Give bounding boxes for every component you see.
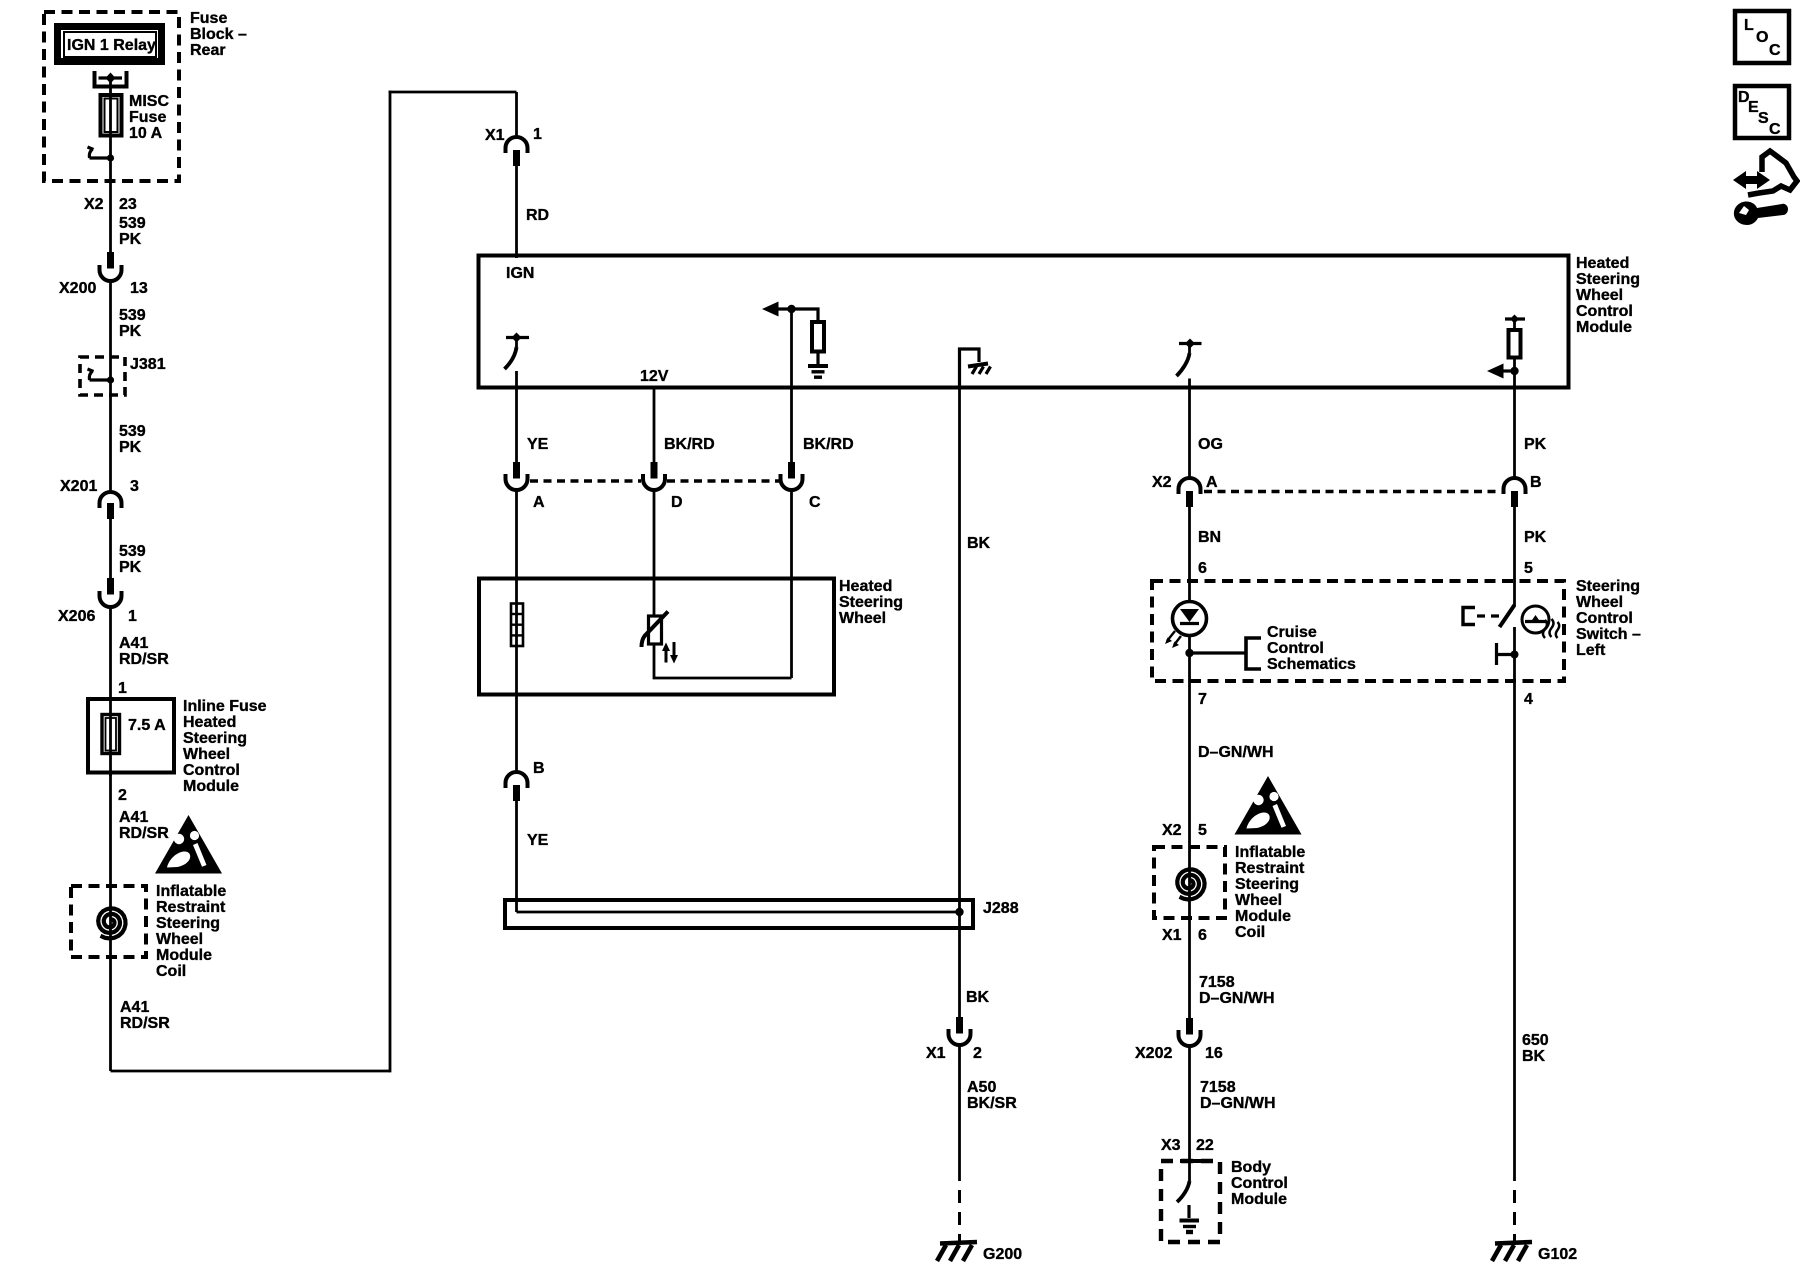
wire thermistor to loop bbox=[654, 644, 792, 678]
svg-text:X2: X2 bbox=[84, 196, 104, 213]
svg-text:A41: A41 bbox=[120, 999, 149, 1016]
svg-text:3: 3 bbox=[130, 478, 139, 495]
icon wrench bbox=[1734, 202, 1788, 225]
svg-text:Restraint: Restraint bbox=[156, 899, 226, 916]
airbag warning triangle bbox=[155, 815, 222, 874]
wire label 539 PK bbox=[119, 307, 146, 340]
svg-text:G200: G200 bbox=[983, 1246, 1022, 1263]
heater element symbol bbox=[511, 604, 523, 647]
svg-text:C: C bbox=[1769, 121, 1781, 138]
svg-text:BN: BN bbox=[1198, 529, 1221, 546]
svg-text:X1: X1 bbox=[926, 1045, 946, 1062]
svg-text:Control: Control bbox=[1576, 303, 1633, 320]
svg-text:1: 1 bbox=[128, 608, 137, 625]
svg-text:PK: PK bbox=[119, 439, 142, 456]
svg-text:539: 539 bbox=[119, 215, 146, 232]
svg-text:12V: 12V bbox=[640, 368, 669, 385]
ground G200 symbol bbox=[937, 1242, 977, 1261]
svg-text:Control: Control bbox=[1267, 640, 1324, 657]
wire label 539 PK bbox=[119, 423, 146, 456]
module internal resistor PK bbox=[1487, 315, 1525, 388]
svg-text:2: 2 bbox=[973, 1045, 982, 1062]
wire BN branch below box bbox=[1188, 681, 1191, 1018]
wire label 7158 D-GN/WH bbox=[1200, 1079, 1276, 1112]
svg-text:Body: Body bbox=[1231, 1159, 1271, 1176]
svg-text:BK: BK bbox=[1522, 1048, 1546, 1065]
label X3 22 bbox=[1161, 1137, 1214, 1154]
svg-text:Control: Control bbox=[183, 762, 240, 779]
svg-text:4: 4 bbox=[1524, 691, 1533, 708]
svg-text:22: 22 bbox=[1196, 1137, 1214, 1154]
wire junction to bracket bbox=[1190, 651, 1247, 654]
svg-text:S: S bbox=[1758, 110, 1769, 127]
wire inline fuse to coil bbox=[109, 772, 112, 1071]
svg-text:5: 5 bbox=[1198, 822, 1207, 839]
svg-text:O: O bbox=[1756, 29, 1768, 46]
connector pin D bbox=[643, 462, 665, 490]
svg-text:Fuse: Fuse bbox=[190, 10, 227, 27]
wire BK/RD 12V below module bbox=[653, 387, 656, 462]
svg-text:A: A bbox=[1206, 474, 1218, 491]
svg-text:Inline Fuse: Inline Fuse bbox=[183, 698, 267, 715]
wire PK below module bbox=[1513, 387, 1516, 480]
wire BN to switch box bbox=[1188, 507, 1191, 602]
svg-text:RD: RD bbox=[526, 207, 549, 224]
fuse MISC Fuse 10A bbox=[101, 95, 122, 148]
svg-text:Switch –: Switch – bbox=[1576, 626, 1641, 643]
label Fuse Block - Rear bbox=[190, 10, 247, 59]
wire heater element to box bottom bbox=[515, 646, 518, 695]
splice J288 internal wire bbox=[517, 911, 960, 914]
svg-text:X202: X202 bbox=[1135, 1045, 1172, 1062]
svg-text:X3: X3 bbox=[1161, 1137, 1181, 1154]
splice J381 dashed box bbox=[80, 357, 125, 395]
wire label A41 RD/SR bbox=[120, 999, 170, 1032]
svg-text:B: B bbox=[533, 760, 545, 777]
svg-text:Inflatable: Inflatable bbox=[1235, 844, 1305, 861]
wire X1-2 to G200 solid bbox=[958, 1045, 961, 1181]
wire label A41 RD/SR bbox=[119, 635, 169, 668]
svg-text:Heated: Heated bbox=[1576, 255, 1629, 272]
wire label A41 RD/SR bbox=[119, 809, 169, 842]
switch linkage bracket and dashes bbox=[1463, 608, 1504, 625]
svg-text:539: 539 bbox=[119, 423, 146, 440]
wire X206 to inline fuse bbox=[109, 607, 112, 699]
connector pin A bbox=[506, 462, 528, 490]
wire loop top horizontal bbox=[389, 91, 517, 94]
svg-text:D: D bbox=[671, 494, 683, 511]
wire A to heater element bbox=[515, 490, 518, 604]
svg-text:PK: PK bbox=[119, 323, 142, 340]
svg-text:Heated: Heated bbox=[839, 578, 892, 595]
svg-text:Coil: Coil bbox=[1235, 924, 1265, 941]
svg-text:539: 539 bbox=[119, 543, 146, 560]
svg-text:L: L bbox=[1744, 17, 1754, 34]
svg-text:Schematics: Schematics bbox=[1267, 656, 1356, 673]
svg-text:Wheel: Wheel bbox=[156, 931, 203, 948]
BCM internal signal ground symbol bbox=[1180, 1221, 1200, 1233]
module internal ground wire BK bbox=[960, 349, 980, 387]
svg-text:BK: BK bbox=[967, 535, 991, 552]
label X206 1 bbox=[58, 608, 137, 625]
svg-text:650: 650 bbox=[1522, 1032, 1549, 1049]
svg-text:Wheel: Wheel bbox=[1235, 892, 1282, 909]
wire YE below module bbox=[515, 387, 518, 462]
svg-text:Module: Module bbox=[1235, 908, 1291, 925]
thermistor arrows up-down bbox=[662, 642, 678, 664]
svg-text:X1: X1 bbox=[485, 127, 505, 144]
coil spiral symbol right bbox=[1177, 869, 1204, 899]
svg-text:D–GN/WH: D–GN/WH bbox=[1198, 744, 1274, 761]
svg-text:Rear: Rear bbox=[190, 42, 226, 59]
svg-text:23: 23 bbox=[119, 196, 137, 213]
svg-text:A41: A41 bbox=[119, 635, 148, 652]
svg-text:1: 1 bbox=[118, 680, 127, 697]
label X201 3 bbox=[60, 478, 139, 495]
label Heated Steering Wheel bbox=[839, 578, 903, 627]
junction dot cruise branch bbox=[1185, 649, 1193, 657]
svg-text:7.5 A: 7.5 A bbox=[128, 717, 166, 734]
svg-text:Coil: Coil bbox=[156, 963, 186, 980]
svg-text:Block –: Block – bbox=[190, 26, 247, 43]
coil spiral symbol bbox=[98, 908, 125, 938]
connector X206 pin 1 bbox=[100, 578, 122, 607]
inflatable restraint coil dashed box bbox=[71, 886, 146, 957]
splice J288 box bbox=[505, 900, 973, 928]
svg-text:BK: BK bbox=[966, 989, 990, 1006]
wire A exits box to B connector bbox=[515, 695, 518, 772]
wire to G200 dashed bbox=[958, 1190, 961, 1243]
svg-text:J288: J288 bbox=[983, 900, 1019, 917]
connector pin B of heated wheel bbox=[506, 772, 528, 801]
module internal resistor to signal ground bbox=[792, 309, 825, 364]
svg-text:X200: X200 bbox=[59, 280, 96, 297]
heated steering wheel box bbox=[479, 579, 834, 695]
svg-text:PK: PK bbox=[1524, 436, 1547, 453]
inline fuse box bbox=[88, 699, 174, 776]
svg-text:BK/SR: BK/SR bbox=[967, 1095, 1017, 1112]
wire PK to switch box bbox=[1513, 507, 1516, 606]
svg-text:X201: X201 bbox=[60, 478, 97, 495]
svg-text:Restraint: Restraint bbox=[1235, 860, 1305, 877]
svg-text:RD/SR: RD/SR bbox=[119, 651, 169, 668]
wire C into heated steering wheel box bbox=[790, 490, 793, 678]
svg-text:16: 16 bbox=[1205, 1045, 1223, 1062]
label X202 16 bbox=[1135, 1045, 1223, 1062]
module internal switch OG bbox=[1177, 339, 1202, 388]
label X2 5 bbox=[1162, 822, 1207, 839]
label Inflatable Restraint Steering Wheel Module Coil bbox=[156, 883, 226, 980]
svg-text:Steering: Steering bbox=[1576, 578, 1640, 595]
LED indicator symbol bbox=[1165, 602, 1207, 649]
wire switch to box bottom bbox=[1513, 627, 1516, 690]
label X2 23 bbox=[84, 196, 137, 213]
svg-text:OG: OG bbox=[1198, 436, 1223, 453]
svg-text:RD/SR: RD/SR bbox=[119, 825, 169, 842]
heated switch lever bbox=[1500, 605, 1515, 627]
label X1 1 bbox=[485, 126, 542, 144]
thermistor symbol bbox=[642, 612, 669, 648]
heat wave squiggles bbox=[1543, 619, 1559, 638]
svg-text:B: B bbox=[1530, 474, 1542, 491]
svg-text:C: C bbox=[809, 494, 821, 511]
wire loop bottom horizontal bbox=[111, 1070, 391, 1073]
connector pin B right bbox=[1504, 478, 1526, 507]
svg-text:A50: A50 bbox=[967, 1079, 996, 1096]
wire to X1 pin 1 bbox=[515, 92, 518, 137]
body control module dashed box bbox=[1161, 1161, 1220, 1242]
svg-text:X1: X1 bbox=[1162, 927, 1182, 944]
relay output terminal cup bbox=[95, 71, 127, 87]
BCM internal switch lever bbox=[1177, 1181, 1190, 1202]
svg-text:Wheel: Wheel bbox=[839, 610, 886, 627]
svg-text:IGN: IGN bbox=[506, 265, 534, 282]
svg-text:Wheel: Wheel bbox=[183, 746, 230, 763]
svg-text:YE: YE bbox=[527, 436, 549, 453]
svg-text:D–GN/WH: D–GN/WH bbox=[1199, 990, 1275, 1007]
relay IGN 1 Relay bbox=[58, 27, 162, 62]
svg-text:Module: Module bbox=[1231, 1191, 1287, 1208]
svg-text:D–GN/WH: D–GN/WH bbox=[1200, 1095, 1276, 1112]
wire X201 to X206 bbox=[109, 519, 112, 579]
svg-text:Inflatable: Inflatable bbox=[156, 883, 226, 900]
svg-text:6: 6 bbox=[1198, 560, 1207, 577]
wire loop right vertical bbox=[389, 91, 392, 1073]
heated indicator circle bbox=[1522, 606, 1549, 633]
svg-text:Control: Control bbox=[1576, 610, 1633, 627]
wire YE to J288 bbox=[515, 801, 518, 912]
module box Heated Steering Wheel Control Module bbox=[479, 256, 1569, 388]
dashed harness line A-D bbox=[530, 479, 641, 482]
svg-text:Wheel: Wheel bbox=[1576, 594, 1623, 611]
cruise control schematics bracket bbox=[1246, 638, 1261, 669]
svg-text:7158: 7158 bbox=[1200, 1079, 1236, 1096]
svg-text:Module: Module bbox=[156, 947, 212, 964]
svg-text:BK/RD: BK/RD bbox=[803, 436, 854, 453]
wire D to thermistor bbox=[653, 490, 656, 616]
dashed harness line A-B bbox=[1204, 490, 1500, 493]
wire label A50 BK/SR bbox=[967, 1079, 1017, 1112]
wire LED to junction bbox=[1188, 636, 1191, 682]
icon DESC box bbox=[1735, 86, 1789, 138]
svg-text:PK: PK bbox=[119, 559, 142, 576]
svg-text:Left: Left bbox=[1576, 642, 1606, 659]
svg-text:7: 7 bbox=[1198, 691, 1207, 708]
steering wheel control switch dashed box bbox=[1152, 581, 1564, 681]
label X1 2 bbox=[926, 1045, 982, 1062]
wire to G102 dashed bbox=[1513, 1190, 1516, 1243]
svg-text:Control: Control bbox=[1231, 1175, 1288, 1192]
svg-text:539: 539 bbox=[119, 307, 146, 324]
svg-text:PK: PK bbox=[119, 231, 142, 248]
module internal arrow left at BK/RD bbox=[762, 302, 796, 317]
svg-text:PK: PK bbox=[1524, 529, 1547, 546]
splice J288 junction bbox=[955, 908, 963, 916]
switch lower contact bbox=[1497, 643, 1519, 665]
svg-text:Steering: Steering bbox=[1235, 876, 1299, 893]
svg-text:G102: G102 bbox=[1538, 1246, 1577, 1263]
BCM pin 22 terminal bar bbox=[1180, 1159, 1201, 1163]
module internal chassis ground symbol bbox=[968, 364, 991, 375]
svg-text:10 A: 10 A bbox=[129, 125, 163, 142]
svg-text:Steering: Steering bbox=[183, 730, 247, 747]
BCM internal ground stub bbox=[1187, 1205, 1190, 1218]
svg-text:C: C bbox=[1769, 42, 1781, 59]
svg-text:1: 1 bbox=[533, 126, 542, 143]
label X2 A bbox=[1152, 474, 1218, 491]
wire label 650 BK bbox=[1522, 1032, 1549, 1065]
svg-text:7158: 7158 bbox=[1199, 974, 1235, 991]
wire X200 to X201 bbox=[109, 281, 112, 492]
label X1 6 bbox=[1162, 927, 1207, 944]
svg-text:RD/SR: RD/SR bbox=[120, 1015, 170, 1032]
svg-text:IGN 1 Relay: IGN 1 Relay bbox=[67, 37, 156, 54]
wire BK below module to J288 bbox=[958, 387, 961, 1017]
label Inline Fuse Heated Steering Wheel Control Module bbox=[183, 698, 267, 795]
fuse output contact hook bbox=[88, 147, 115, 162]
svg-text:YE: YE bbox=[527, 832, 549, 849]
svg-text:X2: X2 bbox=[1152, 474, 1172, 491]
wire RD into module bbox=[515, 166, 518, 258]
svg-text:Module: Module bbox=[1576, 319, 1632, 336]
svg-text:Heated: Heated bbox=[183, 714, 236, 731]
icon navigation arrows bbox=[1733, 151, 1797, 195]
label Inflatable Restraint Steering Wheel Module Coil right bbox=[1235, 844, 1305, 941]
wire PK branch to G102 solid bbox=[1513, 690, 1516, 1181]
wire OG below module bbox=[1188, 387, 1191, 480]
wire label 539 PK bbox=[119, 215, 146, 248]
label Cruise Control Schematics bbox=[1267, 624, 1356, 673]
connector X2 pin A bbox=[1179, 478, 1201, 507]
svg-text:X2: X2 bbox=[1162, 822, 1182, 839]
label X200 13 bbox=[59, 280, 148, 297]
module internal signal ground symbol bbox=[808, 366, 828, 377]
airbag warning triangle right bbox=[1235, 776, 1302, 835]
dashed harness line D-C bbox=[667, 479, 779, 482]
svg-text:MISC: MISC bbox=[129, 93, 169, 110]
connector X1 pin 2 bbox=[949, 1017, 971, 1045]
svg-text:Cruise: Cruise bbox=[1267, 624, 1317, 641]
svg-text:Module: Module bbox=[183, 778, 239, 795]
label MISC Fuse 10 A bbox=[129, 93, 169, 142]
label Body Control Module bbox=[1231, 1159, 1288, 1208]
svg-text:BK/RD: BK/RD bbox=[664, 436, 715, 453]
label Heated Steering Wheel Control Module bbox=[1576, 255, 1640, 336]
label Steering Wheel Control Switch - Left bbox=[1576, 578, 1641, 659]
svg-text:Fuse: Fuse bbox=[129, 109, 166, 126]
svg-text:2: 2 bbox=[118, 787, 127, 804]
svg-text:Steering: Steering bbox=[839, 594, 903, 611]
svg-text:6: 6 bbox=[1198, 927, 1207, 944]
svg-text:Steering: Steering bbox=[1576, 271, 1640, 288]
icon LOC box bbox=[1735, 11, 1789, 63]
svg-text:J381: J381 bbox=[130, 356, 166, 373]
svg-text:A41: A41 bbox=[119, 809, 148, 826]
wire BK/RD below module bbox=[790, 387, 793, 462]
connector X202 pin 16 bbox=[1179, 1018, 1201, 1046]
svg-text:Wheel: Wheel bbox=[1576, 287, 1623, 304]
wire label 539 PK bbox=[119, 543, 146, 576]
module internal wire BK/RD down bbox=[790, 309, 793, 387]
wire fuse to X2 pin 23 bbox=[109, 148, 112, 253]
module internal switch IGN bbox=[505, 333, 530, 388]
connector X200 pin 13 bbox=[100, 252, 122, 281]
fuse block dashed box bbox=[44, 12, 179, 181]
svg-text:13: 13 bbox=[130, 280, 148, 297]
connector pin C bbox=[781, 462, 803, 490]
J381 contact hook bbox=[88, 369, 115, 384]
ground G102 symbol bbox=[1492, 1242, 1532, 1261]
wire label 7158 D-GN/WH bbox=[1199, 974, 1275, 1007]
svg-text:5: 5 bbox=[1524, 560, 1533, 577]
connector X201 pin 3 bbox=[100, 492, 122, 519]
svg-text:A: A bbox=[533, 494, 545, 511]
svg-text:Steering: Steering bbox=[156, 915, 220, 932]
svg-text:X206: X206 bbox=[58, 608, 95, 625]
wire relay to fuse bbox=[109, 78, 112, 96]
inflatable restraint coil dashed box right bbox=[1154, 847, 1225, 918]
connector X1 pin 1 bbox=[506, 137, 528, 166]
wire X202 to BCM bbox=[1188, 1046, 1191, 1181]
